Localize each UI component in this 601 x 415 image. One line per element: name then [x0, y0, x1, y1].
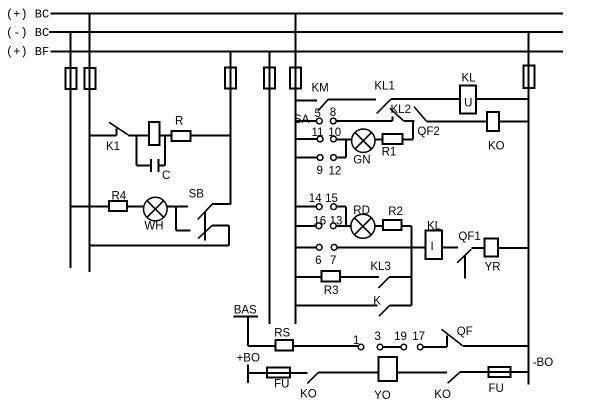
pushbutton SB lower blade [198, 225, 212, 238]
wire jumper riser 15-13 [345, 207, 347, 226]
terminal BAS bar [234, 316, 259, 318]
capacitor C right plate [157, 159, 159, 172]
wire WH to SB [167, 205, 188, 207]
wire right riser R2/6-7/KL3/K [410, 226, 412, 306]
svg-text:QF: QF [457, 326, 473, 338]
wire KO2 to FU right [460, 371, 529, 373]
svg-text:KL3: KL3 [370, 261, 390, 273]
wire SB lower out drop [228, 225, 230, 245]
contact K1 tick [115, 128, 117, 135]
wire C branch left drop [136, 135, 138, 165]
svg-text:(+) BF: (+) BF [6, 45, 49, 59]
fuse on rail V5 [290, 68, 301, 89]
svg-text:R3: R3 [324, 285, 339, 297]
node contact 7 [331, 244, 337, 250]
svg-text:6: 6 [315, 255, 321, 267]
wire SA row4 stub [295, 206, 316, 208]
contact KL3 blade [378, 277, 389, 288]
svg-text:QF2: QF2 [417, 126, 439, 138]
capacitor C left plate [150, 159, 152, 172]
wire SB upper out [212, 203, 230, 205]
svg-text:FU: FU [274, 379, 289, 391]
pushbutton SB link [204, 212, 206, 241]
svg-text:15: 15 [325, 193, 338, 205]
wire vertical rail V1 from (-)BC [70, 32, 72, 268]
svg-text:R: R [175, 116, 183, 128]
wire KL3 out [389, 276, 411, 278]
svg-text:BAS: BAS [234, 305, 257, 317]
resistor RS [276, 340, 294, 351]
wire SA row6 stub [295, 246, 316, 248]
wire vertical rail V2 from (+)BC [89, 14, 91, 273]
svg-text:12: 12 [329, 166, 342, 178]
contact KO2 blade [448, 372, 460, 383]
wire YO to KO2 [397, 371, 447, 373]
svg-text:FU: FU [489, 383, 504, 395]
node contact 14 [316, 204, 322, 210]
wire BAS drop [247, 317, 249, 346]
node contact 13 [330, 223, 336, 229]
fuse on rail V1 [66, 68, 77, 89]
svg-text:R1: R1 [382, 147, 397, 159]
svg-text:KL: KL [462, 73, 477, 85]
lamp RD [351, 214, 375, 238]
wire K1 row in [90, 134, 117, 136]
lamp GN [352, 129, 375, 152]
svg-text:U: U [464, 98, 472, 110]
svg-text:RS: RS [274, 328, 290, 340]
fuse on rail V3 [225, 68, 236, 89]
bus (+) BC [51, 13, 564, 15]
svg-text:I: I [431, 241, 434, 253]
wire contact 12 jumper [336, 157, 345, 159]
contact KL2 tick [392, 117, 394, 121]
wire KL2 to QF2 [404, 120, 415, 122]
wire GN to R1 [375, 139, 382, 141]
trip coil YR [485, 238, 498, 256]
svg-text:8: 8 [330, 107, 336, 119]
node contact 17 [417, 344, 423, 350]
svg-text:YR: YR [485, 262, 501, 274]
resistor R1 [382, 134, 402, 144]
wire contact 17 to QF [423, 346, 447, 348]
wire KO1 to YO [319, 371, 379, 373]
wire QF to rail [463, 345, 529, 347]
wire SA row2 stub [295, 138, 317, 140]
wire C branch bottom right [158, 165, 165, 167]
wire contact 7 to I coil [337, 246, 426, 248]
contact KL2 blade [390, 108, 404, 121]
wire KM row stub [295, 100, 317, 102]
svg-text:K1: K1 [106, 141, 120, 153]
wire KO coil to rail [499, 120, 529, 122]
fuse FU left [267, 367, 290, 377]
node contact 1 [358, 344, 364, 350]
svg-text:7: 7 [330, 255, 336, 267]
wire vertical rail V4 from (+)BF [268, 52, 270, 325]
wire R1 out [402, 138, 413, 140]
svg-text:3: 3 [375, 331, 381, 343]
wire contact 8 to KL2 [336, 120, 393, 122]
resistor R [172, 131, 191, 141]
fuse on rail V4 [264, 68, 275, 89]
fuse FU right [489, 367, 511, 377]
wire U to rail [476, 98, 529, 100]
wire C branch bottom left [137, 165, 152, 167]
wire contact 15 jumper [337, 206, 346, 208]
resistor vertical box in K1 row [149, 122, 160, 145]
wire vertical rail V5 from (+)BC [294, 14, 296, 325]
node contact 11 [317, 136, 323, 142]
svg-text:KO: KO [434, 389, 451, 401]
wire QF1 to YR [471, 247, 484, 249]
wire RD to R2 [375, 225, 383, 227]
svg-text:-BO: -BO [533, 357, 554, 369]
wire contact 3 to 19 [383, 346, 401, 348]
wire R4 to WH [127, 205, 144, 207]
svg-text:KL1: KL1 [374, 81, 394, 93]
wire vertical rail V3 from (+)BF [230, 52, 232, 205]
svg-text:R4: R4 [112, 191, 127, 203]
node contact 8 [330, 118, 336, 124]
contact QF tick [446, 336, 448, 347]
node contact 5 [316, 118, 322, 124]
wire SB branch drop [175, 206, 177, 230]
wire contact 13 to RD [336, 225, 351, 227]
fuse on rail V6 [524, 66, 535, 89]
wire R3 row stub [295, 276, 321, 278]
wire WH row in [71, 205, 110, 207]
svg-text:SB: SB [189, 189, 205, 201]
relay coil I [426, 231, 443, 259]
contact KL1 blade [377, 99, 391, 113]
wire SA row1 stub [295, 120, 316, 122]
node contact 15 [331, 204, 337, 210]
contact KM blade [318, 99, 328, 111]
wire BAS to RS [248, 345, 275, 347]
relay coil KO [487, 112, 499, 131]
contactor coil YO [379, 357, 398, 381]
contact K blade [379, 306, 390, 317]
wire KL1 to U [391, 98, 460, 100]
svg-text:+BO: +BO [237, 353, 260, 365]
resistor R4 [109, 201, 127, 211]
wire jumper riser 12-10 [345, 139, 347, 158]
node contact 12 [331, 155, 337, 161]
contact QF1 linkage [464, 255, 466, 278]
wire SA row5 stub [295, 225, 316, 227]
svg-text:9: 9 [317, 165, 323, 177]
contact K1 blade [109, 122, 128, 135]
wire SB lower stub [176, 229, 190, 231]
wire RS to contact 1 [293, 345, 358, 347]
wire right rail V6 from (-)BC to -BO [528, 32, 530, 385]
lamp WH [144, 197, 168, 221]
svg-text:KM: KM [312, 83, 329, 95]
relay coil U [460, 85, 476, 113]
wire SB lower out [212, 224, 229, 226]
svg-text:R2: R2 [388, 206, 403, 218]
wire R3 to KL3 [340, 276, 379, 278]
wire YR to rail [498, 247, 529, 249]
svg-text:(-) BC: (-) BC [6, 26, 49, 40]
wire K1 row out [128, 134, 231, 136]
wire KM to KL1 [328, 98, 376, 100]
svg-text:GN: GN [353, 155, 370, 167]
resistor R2 [383, 220, 401, 230]
node contact 16 [316, 223, 322, 229]
wire contact 10 to GN [336, 139, 351, 141]
svg-text:17: 17 [412, 331, 425, 343]
svg-text:QF1: QF1 [458, 231, 480, 243]
pushbutton SB upper blade [198, 204, 213, 219]
svg-text:KL2: KL2 [391, 104, 411, 116]
wire C branch right riser [164, 135, 166, 165]
resistor R3 [322, 271, 341, 282]
wire K row stub [295, 305, 377, 307]
wire SA row3 stub [295, 157, 317, 159]
svg-text:C: C [162, 170, 170, 182]
bus (-) BC [49, 31, 563, 33]
svg-text:19: 19 [394, 331, 407, 343]
wire I to QF1 [442, 246, 458, 248]
contact QF blade [442, 329, 463, 345]
svg-text:(+) BC: (+) BC [6, 8, 49, 22]
node contact 3 [377, 344, 383, 350]
node contact 9 [317, 155, 323, 161]
svg-text:RD: RD [353, 205, 370, 217]
contact KO1 blade [307, 372, 318, 383]
svg-text:KO: KO [488, 141, 505, 153]
wire K out [390, 305, 412, 307]
svg-text:K: K [373, 295, 381, 307]
svg-text:YO: YO [374, 390, 391, 402]
contact QF1 blade [457, 249, 471, 263]
svg-text:WH: WH [144, 221, 163, 233]
node contact 19 [401, 344, 407, 350]
node contact 6 [316, 244, 322, 250]
wire R2 out [402, 225, 412, 227]
wire QF2 to KO coil [426, 120, 487, 122]
svg-text:KO: KO [300, 389, 317, 401]
wire bottom-left return [90, 245, 230, 247]
contact QF2 blade [414, 107, 426, 122]
bus (+) BF [51, 51, 564, 53]
wire +BO to FU [248, 372, 308, 374]
terminal +BO stub [247, 364, 249, 383]
wire R1 riser to KL2-QF2 [412, 121, 414, 139]
node contact 10 [331, 136, 337, 142]
fuse on rail V2 [85, 68, 96, 89]
